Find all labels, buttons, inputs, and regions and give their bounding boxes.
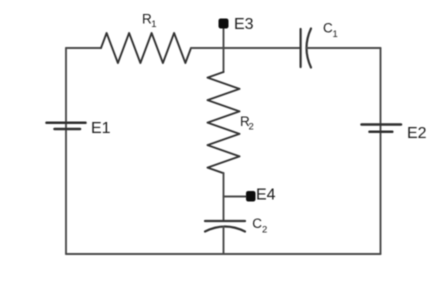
- battery E1: [47, 123, 86, 129]
- node E3: [219, 19, 229, 29]
- svg-text:C: C: [323, 21, 333, 36]
- svg-text:E3: E3: [234, 16, 254, 33]
- svg-text:1: 1: [151, 19, 156, 30]
- resistor R1: [101, 33, 191, 63]
- capacitor C2: [205, 221, 245, 232]
- wire node E3 to R2: [223, 28, 225, 72]
- wire R1 to C1 (through node E3 junction): [191, 47, 300, 49]
- battery E2: [362, 125, 402, 132]
- capacitor C1: [301, 29, 311, 68]
- wire R2 to C2: [223, 173, 225, 221]
- node E4: [246, 191, 256, 202]
- svg-text:2: 2: [249, 122, 254, 133]
- svg-text:2: 2: [262, 225, 267, 236]
- resistor R2: [208, 72, 240, 173]
- wire right rail: [380, 48, 382, 254]
- svg-text:E2: E2: [407, 125, 427, 142]
- wire left rail: [65, 48, 67, 254]
- svg-text:C: C: [252, 216, 262, 231]
- wire top-left segment: [66, 47, 101, 49]
- svg-text:E4: E4: [256, 187, 276, 204]
- wire C1 to top-right corner: [306, 47, 380, 49]
- svg-text:E1: E1: [91, 120, 111, 137]
- svg-text:1: 1: [333, 29, 338, 40]
- wire C2 to bottom rail: [223, 227, 225, 255]
- wire bottom rail: [66, 253, 381, 255]
- wire stub to node E4: [224, 196, 247, 198]
